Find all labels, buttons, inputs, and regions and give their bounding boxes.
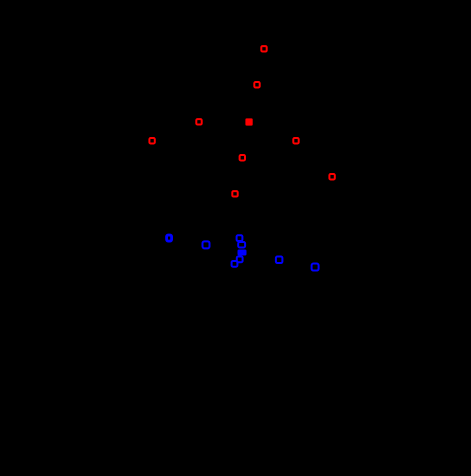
oxygen O3 (solid) [245,118,252,125]
oxygen O4 [196,119,201,124]
oxygen O8 [329,174,334,179]
nitrogen N7 [232,261,238,267]
nitrogen N4 [238,242,245,247]
oxygen O7 [240,155,245,160]
nitrogen N1 [167,235,172,241]
oxygen O1 [261,46,266,51]
nitrogen N3 (cluster top) [237,235,243,241]
nitrogen N2 [203,241,210,248]
oxygen O5 [149,138,154,143]
nitrogen N9 [312,264,319,271]
nitrogen N8 [276,257,283,264]
oxygen O2 [254,82,259,87]
oxygen O6 [293,138,298,143]
nitrogen N5 (solid) [238,249,247,255]
oxygen O9 [232,191,237,196]
nitrogen N6 [237,256,243,262]
